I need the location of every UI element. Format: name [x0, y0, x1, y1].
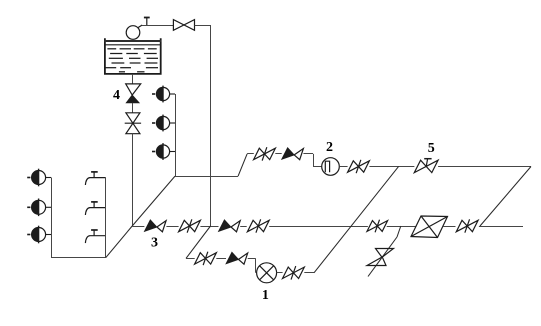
svg-text:2: 2	[326, 140, 333, 155]
wire faucet riser	[105, 178, 107, 258]
wire between valve 4 and gate valve	[132, 103, 134, 113]
wire top branch e	[438, 166, 531, 168]
label 2	[326, 140, 333, 155]
fixture tap right column 2	[152, 115, 170, 132]
wire top branch d	[369, 166, 414, 168]
wire top branch c	[303, 153, 313, 155]
gate valve top branch	[254, 147, 276, 160]
wire pump out a	[277, 272, 283, 274]
faucet 3	[85, 230, 105, 243]
wire left fixture stub 2	[46, 206, 51, 208]
fixture tap left column 2	[27, 199, 45, 217]
svg-text:1: 1	[262, 288, 269, 303]
label 1	[262, 288, 269, 303]
wire into meter	[313, 166, 322, 168]
wire main e	[269, 226, 368, 228]
wire pump branch b	[216, 258, 226, 260]
wire step down to meter	[313, 154, 315, 167]
label 5	[428, 141, 435, 156]
strainer box	[411, 216, 448, 238]
safety valve	[367, 249, 394, 266]
gate valve main 4	[456, 219, 478, 232]
fixture tap right column 3	[152, 143, 170, 160]
wire pump drop	[255, 258, 257, 272]
wire diagonal node A to corner	[132, 176, 175, 226]
svg-text:3: 3	[151, 236, 158, 251]
wire top branch a	[247, 153, 254, 155]
wire fixture stub 3	[170, 151, 175, 153]
check valve top branch	[282, 148, 304, 160]
wire pump branch a	[186, 258, 195, 260]
check valve 3	[144, 220, 166, 232]
wire riser right of tank	[210, 25, 212, 226]
label 3	[151, 236, 158, 251]
wire long diagonal pump to top	[314, 166, 399, 272]
wire overflow pipe left	[142, 25, 174, 27]
water tank	[105, 38, 161, 74]
wire safety branch	[368, 226, 401, 277]
pump 1	[257, 263, 277, 283]
wire pump out b	[304, 272, 314, 274]
wire diagonal right down	[480, 167, 531, 227]
wire main h	[479, 226, 523, 228]
tank water surface lines	[104, 41, 161, 45]
gate valve on overflow pipe	[173, 20, 194, 31]
tank water dashes	[106, 49, 159, 72]
check valve pump branch	[226, 252, 248, 264]
wire left fixture stub 3	[46, 234, 51, 236]
check valve 4	[126, 84, 141, 103]
wire top branch b	[275, 153, 281, 155]
wire main d	[240, 226, 247, 228]
wire main g	[443, 226, 456, 228]
wire main c	[200, 226, 218, 228]
wire diagonal bottom-left to node A	[106, 226, 133, 258]
float connector wire	[138, 25, 142, 28]
wire overflow pipe right	[195, 25, 211, 27]
wire main f	[387, 226, 417, 228]
fixture tap right column 1	[152, 86, 170, 103]
gate valve after meter	[348, 160, 370, 173]
gate valve main 2	[247, 219, 269, 232]
gate valve vertical below tank	[125, 113, 141, 134]
wire horizontal y176	[175, 176, 238, 178]
wire right fixtures riser	[175, 94, 177, 176]
wire fixture stub 2	[170, 122, 175, 124]
svg-text:5: 5	[428, 141, 435, 156]
wire main a	[132, 226, 144, 228]
fixture tap left column 3	[27, 226, 45, 244]
wire pump branch c	[248, 258, 256, 260]
gate valve main 1	[179, 219, 201, 232]
wire tank outlet	[132, 75, 134, 84]
wire fixture stub 1	[170, 93, 175, 95]
water meter 2	[322, 158, 340, 176]
wire meter out	[339, 166, 347, 168]
label 4	[113, 88, 120, 103]
gate valve pump out	[283, 266, 305, 279]
gate valve pump in	[195, 252, 217, 265]
wire diagonal down to pump branch	[186, 226, 211, 258]
wire drain down to node A	[132, 134, 134, 226]
gate valve 5	[414, 159, 438, 173]
faucet 1	[85, 172, 105, 185]
faucet 2	[85, 202, 105, 215]
wire left fixture stub 1	[46, 177, 51, 179]
wire left riser	[51, 178, 53, 258]
fixture tap left column 1	[27, 169, 45, 187]
check valve main 2	[219, 220, 241, 232]
wire bottom header	[51, 257, 106, 259]
gate valve main 3	[367, 220, 388, 233]
wire main b	[166, 226, 178, 228]
wire diagonal up to top branch	[238, 154, 247, 176]
svg-text:4: 4	[113, 88, 120, 103]
float ball	[126, 26, 140, 40]
tap T on overflow pipe	[144, 18, 150, 26]
